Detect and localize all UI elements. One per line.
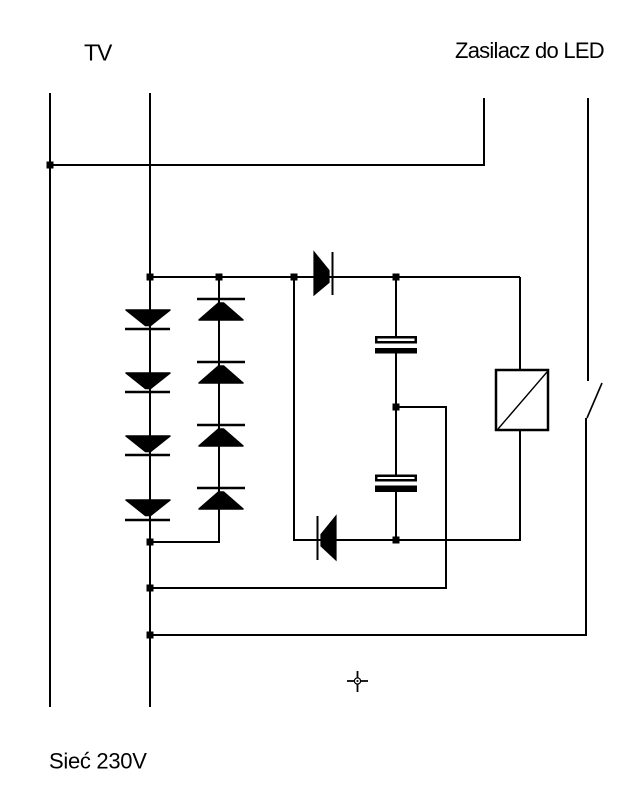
svg-text:Zasilacz do LED: Zasilacz do LED xyxy=(455,38,604,63)
svg-text:TV: TV xyxy=(84,40,113,66)
svg-text:Sieć 230V: Sieć 230V xyxy=(49,748,147,773)
